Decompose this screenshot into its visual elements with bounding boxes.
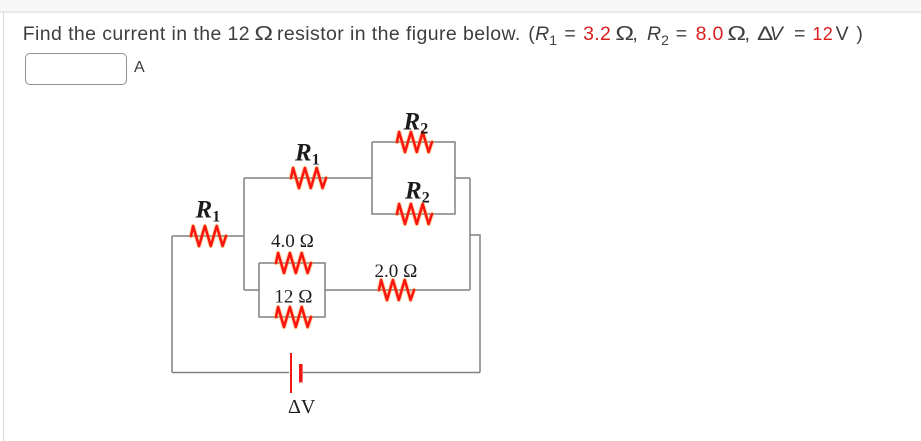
- wire: middle vertical junction column: [243, 178, 245, 290]
- resistor 2.0 ohm: [379, 280, 414, 300]
- wire: R2 box right stub: [455, 177, 470, 179]
- wire: middle left into 4-12 box: [244, 289, 259, 291]
- svg-text:2.0 Ω: 2.0 Ω: [374, 261, 417, 282]
- svg-text:R2: R2: [404, 178, 430, 207]
- wire: bottom left segment to battery: [172, 372, 289, 374]
- wire: right vertical of outer loop: [470, 235, 480, 373]
- wire: left vertical of outer loop: [171, 236, 173, 373]
- wire: right middle vertical (junction of 2.0 ohm branch): [469, 178, 471, 290]
- resistor R2 upper: [397, 132, 432, 152]
- wire: top middle horizontal with R1: [244, 177, 372, 179]
- svg-text:R2: R2: [403, 109, 429, 138]
- resistor 4.0 ohm: [276, 253, 311, 273]
- wire: left R1 branch horizontal: [172, 235, 244, 237]
- svg-text:ΔV: ΔV: [288, 396, 316, 418]
- svg-text:4.0 Ω: 4.0 Ω: [271, 231, 314, 252]
- wire: bottom right segment from battery: [303, 372, 480, 374]
- battery delta-V: [291, 353, 303, 393]
- resistor 12 ohm: [276, 307, 311, 327]
- svg-text:R1: R1: [195, 197, 221, 226]
- wire: 2.0 ohm branch horizontal: [325, 289, 470, 291]
- resistor R1 top: [291, 168, 326, 188]
- resistor R1 left: [191, 226, 226, 246]
- svg-text:12 Ω: 12 Ω: [274, 287, 312, 308]
- resistor R2 lower: [397, 204, 432, 224]
- wire: 4.0/12 parallel box: [259, 263, 325, 317]
- wire: R2 parallel box: [372, 142, 455, 214]
- svg-text:R1: R1: [294, 139, 320, 168]
